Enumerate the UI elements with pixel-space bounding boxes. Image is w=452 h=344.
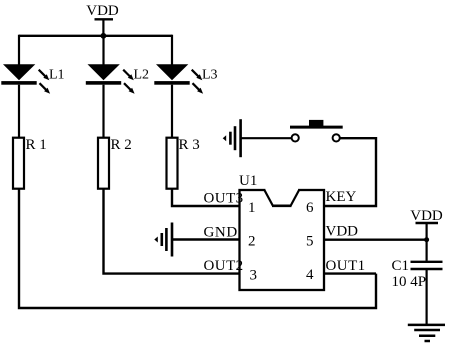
wire C1 to ground	[426, 270, 428, 325]
svg-text:R 3: R 3	[179, 137, 200, 153]
svg-text:L3: L3	[202, 68, 218, 83]
svg-text:OUT2: OUT2	[204, 258, 244, 274]
wire ground to pin 2 GND	[172, 238, 241, 240]
svg-text:U1: U1	[239, 173, 257, 189]
svg-text:2: 2	[248, 234, 256, 250]
LED L3	[154, 64, 203, 94]
wire node to C1	[426, 240, 428, 261]
LED L1	[1, 64, 50, 94]
wire bus to LED L1 anode	[18, 35, 20, 66]
svg-text:6: 6	[306, 200, 314, 216]
wire ground to button	[241, 137, 292, 139]
wire top bus	[19, 35, 172, 37]
svg-text:GND: GND	[204, 225, 238, 241]
svg-text:KEY: KEY	[326, 189, 357, 205]
svg-text:VDD: VDD	[326, 224, 359, 240]
push button switch	[290, 120, 343, 142]
svg-text:VDD: VDD	[86, 3, 119, 19]
svg-text:OUT1: OUT1	[326, 258, 366, 274]
resistor R1	[13, 138, 24, 189]
node junction on bus	[101, 33, 107, 39]
svg-text:L1: L1	[49, 68, 65, 83]
wire L3 cathode to R3	[171, 85, 173, 139]
wire pin 4 OUT1 to right rail	[323, 272, 376, 274]
svg-text:1: 1	[248, 200, 256, 216]
wire L1 cathode to R1	[18, 85, 20, 139]
ground (pin 2, sideways)	[154, 223, 172, 257]
wire R2 to pin 3 OUT2	[104, 189, 241, 274]
svg-text:L2: L2	[134, 68, 150, 83]
wire pin 5 to VDD node	[323, 238, 428, 240]
wire bus to LED L3 anode	[171, 35, 173, 66]
power symbol VDD (top)	[86, 3, 119, 37]
svg-text:5: 5	[306, 234, 314, 250]
svg-text:R 2: R 2	[111, 137, 132, 153]
svg-text:R 1: R 1	[26, 137, 47, 153]
svg-text:C1: C1	[392, 258, 410, 274]
LED L2	[86, 64, 135, 94]
svg-text:VDD: VDD	[410, 208, 443, 224]
wire button to KEY net	[323, 138, 376, 206]
svg-text:OUT3: OUT3	[204, 191, 244, 207]
wire R1 to bottom rail	[19, 189, 376, 308]
wire bus to LED L2 anode	[102, 35, 104, 66]
node junction VDD/C1	[424, 237, 429, 242]
resistor R3	[167, 138, 178, 189]
power symbol VDD (right)	[410, 208, 443, 240]
capacitor C1	[411, 262, 443, 269]
ground (push button, sideways)	[223, 119, 241, 157]
svg-text:3: 3	[250, 268, 258, 284]
svg-text:10 4P: 10 4P	[392, 274, 427, 290]
resistor R2	[98, 138, 109, 189]
wire R3 to pin 1 OUT3	[172, 189, 241, 206]
op-amp U1 (IC box)	[240, 187, 325, 290]
wire L2 cathode to R2	[102, 85, 104, 139]
svg-text:4: 4	[306, 267, 314, 283]
ground (bottom)	[408, 325, 445, 341]
